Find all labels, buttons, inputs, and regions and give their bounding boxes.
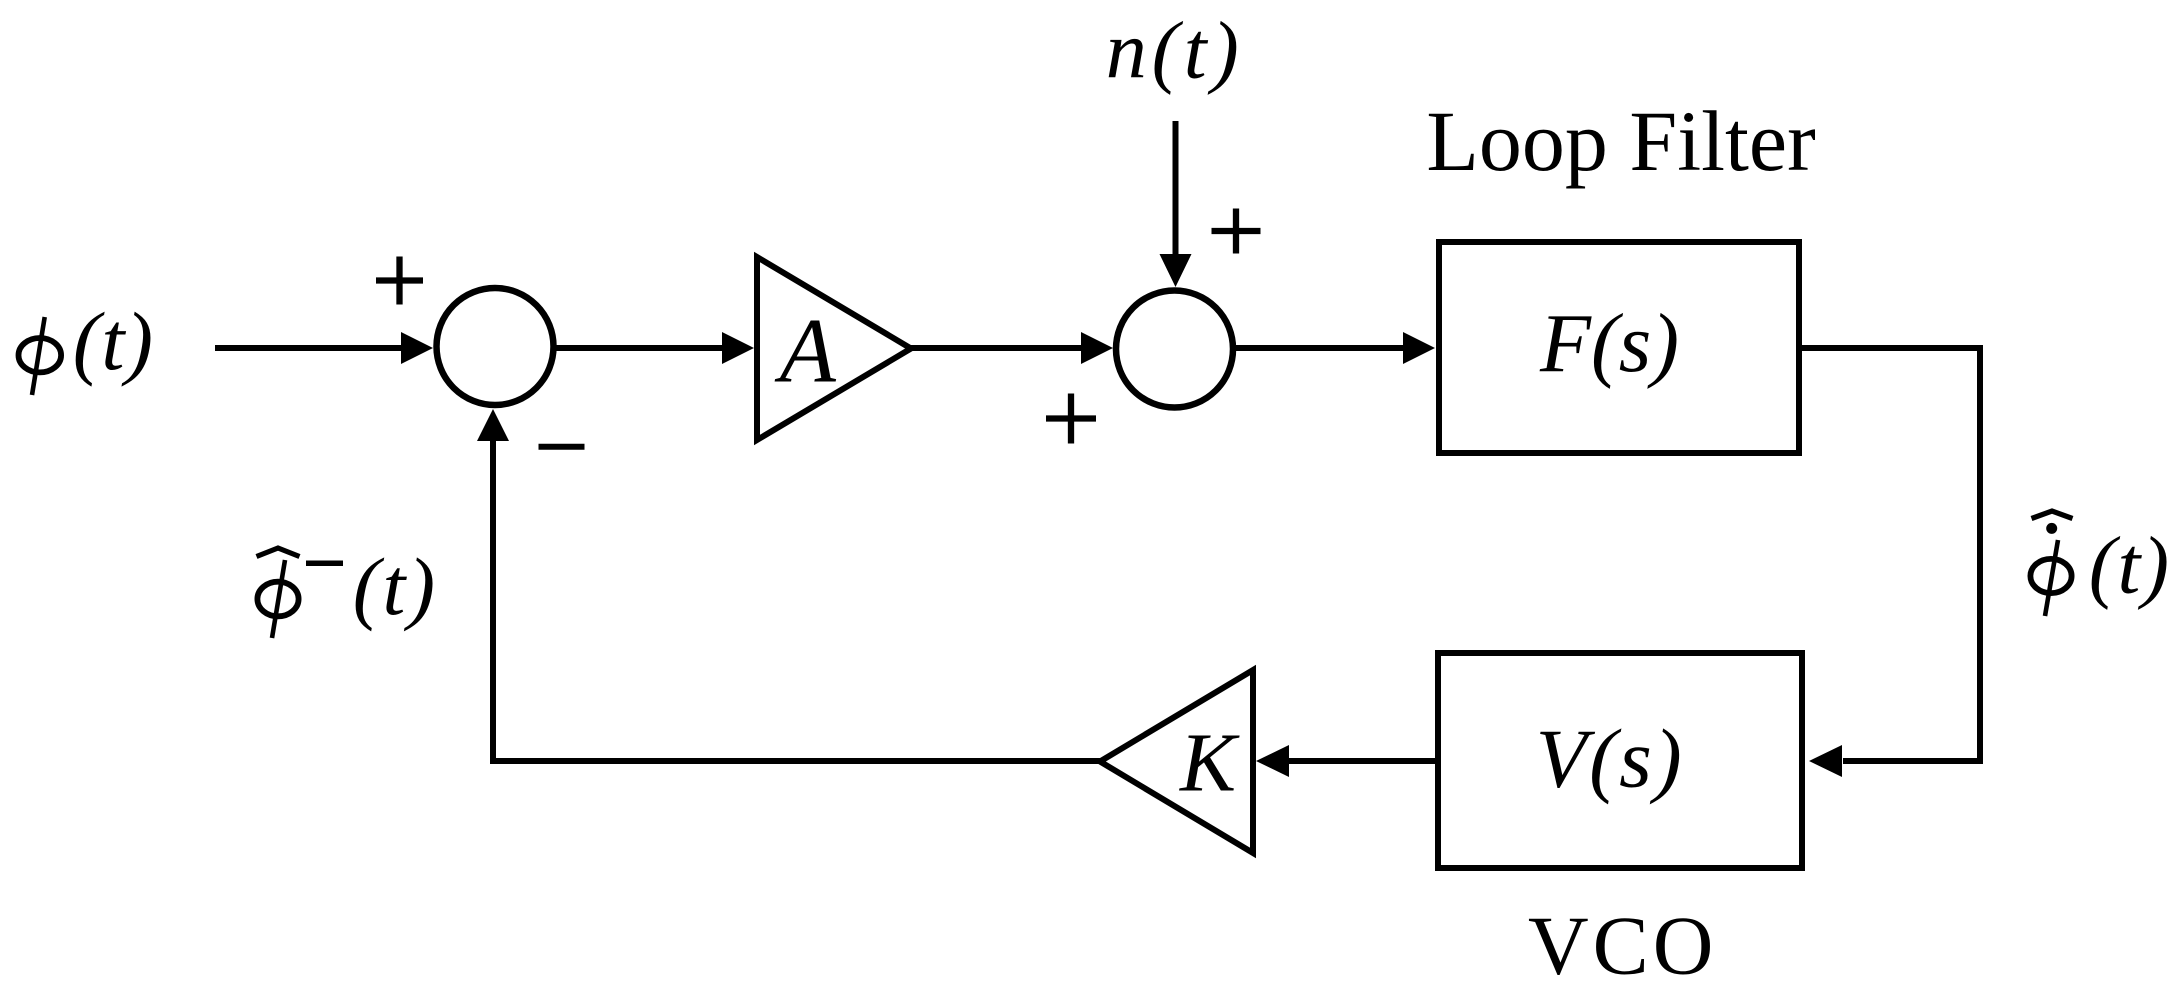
svg-text:(t): (t): [2089, 520, 2171, 611]
amplifier K triangle: [1100, 670, 1253, 853]
block VCO V(s): [1438, 653, 1802, 868]
summer 2: [1116, 291, 1233, 408]
wire amp A to summer 2: [911, 345, 1083, 351]
signal label phi(t): [19, 295, 155, 395]
wire noise input: [1173, 121, 1179, 256]
arrow feedback into summer 1: [477, 409, 509, 441]
plus sign at noise input: [1212, 209, 1261, 254]
svg-text:K: K: [1179, 717, 1240, 810]
wire summer 1 to amp A: [556, 345, 724, 351]
wire summer 2 to loop filter: [1236, 345, 1403, 351]
arrow into amp A: [722, 332, 754, 364]
plus sign at summer 2 left input: [1046, 394, 1096, 444]
wire vco to amp K: [1288, 758, 1435, 764]
signal label phi-hat-dot(t): [2030, 511, 2170, 616]
arrow into amp K: [1256, 745, 1289, 777]
svg-text:VCO: VCO: [1528, 900, 1717, 993]
svg-text:A: A: [774, 299, 837, 401]
wire feedback: [493, 440, 1100, 761]
wire loop filter to vco: [1802, 348, 1980, 761]
amplifier A triangle: [757, 257, 911, 440]
arrow into summer 1: [401, 332, 433, 364]
svg-text:Loop Filter: Loop Filter: [1426, 93, 1815, 189]
svg-text:F(s): F(s): [1539, 298, 1679, 390]
arrow into loop filter: [1403, 332, 1435, 364]
plus sign at summer 1 input: [376, 257, 423, 305]
summer 1: [437, 288, 554, 405]
arrow noise into summer 2: [1160, 254, 1192, 287]
svg-text:(t): (t): [73, 295, 154, 387]
svg-text:n(t): n(t): [1106, 5, 1244, 96]
minus sign at summer 1 feedback input: [539, 444, 585, 450]
block loop filter F(s): [1439, 242, 1799, 453]
svg-text:(t): (t): [353, 541, 438, 632]
wire input: [215, 345, 403, 351]
arrow into summer 2: [1081, 332, 1113, 364]
svg-text:V(s): V(s): [1536, 712, 1684, 805]
arrow into vco: [1809, 745, 1842, 777]
signal label phi-hat-minus(t): [257, 541, 438, 638]
